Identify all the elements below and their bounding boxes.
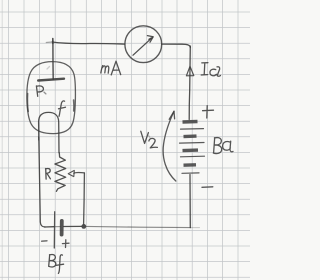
- wire: wiper tap vertical down to junction: [83, 173, 86, 224]
- Va arc arrow: [163, 111, 176, 181]
- wire: faint left tail of top wire: [46, 41, 52, 44]
- Va arc arrowhead: [169, 111, 174, 119]
- plate electrode bar of tube: [38, 79, 64, 81]
- meter needle arrowhead: [147, 36, 153, 43]
- battery Bf long plate: [53, 212, 55, 248]
- label - (Ba minus): [202, 186, 213, 189]
- tick after P: [44, 92, 46, 94]
- wire: left leg down to bottom-left corner: [39, 137, 45, 227]
- resistor R: [55, 153, 66, 192]
- wire: plate lead into tube: [52, 41, 54, 80]
- label Va: [141, 131, 149, 143]
- wire: between Bf plates: [55, 226, 61, 228]
- meter needle: [133, 37, 153, 55]
- meter mA (circle): [125, 26, 162, 63]
- filament loop: [39, 112, 59, 152]
- wire: meter to top-right corner: [162, 44, 191, 47]
- wire: right vertical upper segment: [189, 46, 190, 120]
- label Ba: [213, 138, 233, 154]
- current arrow Ia (open triangle up): [186, 66, 193, 76]
- label + (Bf plus): [62, 240, 69, 248]
- wire: faint overshoot right of corner: [191, 227, 200, 229]
- wiper arrow into R: [68, 170, 74, 176]
- battery Ba (plate stack: thick short bars + thin long lines): [183, 120, 198, 124]
- label + (Ba plus): [203, 106, 214, 118]
- wire: bottom wire left segment to battery Bf: [45, 226, 55, 228]
- faint tick between V and subscript: [149, 136, 150, 138]
- wire: Bf to junction: [64, 225, 82, 227]
- wire: top wire from plate lead to meter: [52, 42, 125, 44]
- wire: right vertical lower segment: [189, 175, 191, 228]
- label mA: [101, 66, 109, 74]
- label Ia: [201, 63, 208, 75]
- label P (plate): [36, 86, 43, 96]
- tube side reinforcement strokes: [26, 94, 29, 112]
- graph paper grid (decorative): [0, 0, 250, 280]
- faint smudge above plate: [47, 67, 50, 70]
- label R: [46, 168, 51, 179]
- wire: start tick at left end of top wire: [52, 39, 54, 44]
- label - (Bf minus): [42, 240, 47, 242]
- label f (filament): [59, 101, 66, 116]
- wire: wiper tap horizontal: [74, 171, 85, 174]
- vacuum tube V1 envelope: [27, 62, 76, 134]
- junction node: [81, 224, 86, 229]
- wire: bottom wire right segment: [86, 226, 190, 227]
- label Bf: [49, 254, 64, 273]
- battery Bf short thick plate: [60, 221, 64, 235]
